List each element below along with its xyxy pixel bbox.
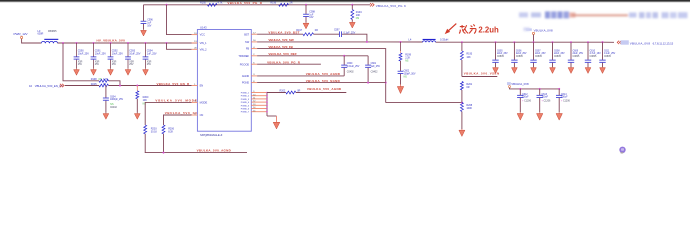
junction c598 [305, 4, 307, 6]
junction C613 [539, 88, 541, 90]
svg-text:8.2K: 8.2K [168, 130, 173, 133]
capacitor C610 [587, 42, 589, 60]
wire input [22, 39, 42, 43]
capacitor C598 [305, 5, 307, 14]
svg-text:VBULKA_5V0_MODE: VBULKA_5V0_MODE [155, 99, 197, 103]
svg-text:PGND_2: PGND_2 [241, 96, 250, 98]
wire tier2 rail [510, 88, 560, 89]
ground C605 [495, 66, 497, 69]
svg-text:NS: NS [405, 61, 409, 63]
junction fb pgnd [385, 82, 387, 84]
wire pgnd to gnd [267, 115, 277, 117]
svg-text:VCC: VCC [200, 33, 205, 37]
capacitor C614 [558, 89, 560, 95]
ground C590 [76, 68, 78, 71]
ground C611 [602, 66, 604, 69]
svg-text:R196: R196 [270, 2, 276, 5]
svg-text:0R: 0R [315, 29, 318, 32]
svg-text:0.01uF_25V: 0.01uF_25V [347, 65, 360, 68]
capacitor C608 [552, 42, 554, 60]
svg-text:2.2K: 2.2K [405, 56, 410, 59]
junction C605 [495, 41, 497, 43]
svg-text:10K: 10K [466, 56, 471, 59]
svg-text:C0805: C0805 [604, 55, 611, 58]
junction input cap C594 [145, 42, 147, 44]
capacitor C600 [343, 56, 345, 65]
junction en row2 b [136, 85, 138, 87]
capacitor C594 [145, 43, 147, 57]
wire fb [257, 49, 386, 103]
wire agnd row [257, 75, 344, 77]
wire bst a [257, 33, 303, 35]
ground R200 [136, 112, 138, 115]
svg-text:PGND_4: PGND_4 [241, 102, 250, 104]
wire input rail HV_VBULKA_5V0 [58, 42, 198, 44]
ground C608 [552, 66, 554, 69]
svg-text:VBULKA_0V8: VBULKA_0V8 [630, 41, 651, 45]
ground C593 [127, 68, 129, 71]
junction C610 [587, 41, 589, 43]
junction input cap C592 [110, 42, 112, 44]
svg-text:SW: SW [245, 40, 250, 44]
pin PGND_5 [251, 104, 267, 106]
svg-text:C1206: C1206 [544, 99, 551, 102]
junction pgnd row [367, 82, 369, 84]
svg-text:C1206: C1206 [524, 99, 531, 102]
wire pgnd row [257, 82, 386, 84]
wire vcc branch [167, 5, 192, 35]
svg-text:0R: 0R [466, 86, 469, 89]
ground C598 [305, 22, 307, 25]
wire bst b [314, 33, 340, 35]
resistor R194 [351, 5, 353, 10]
junction C614 [558, 88, 560, 90]
svg-text:PGND: PGND [242, 81, 249, 85]
svg-text:C0805: C0805 [554, 55, 561, 58]
svg-text:100uF: 100uF [561, 96, 568, 99]
capacitor C607 [533, 42, 535, 60]
svg-text:TRK/REF: TRK/REF [238, 54, 249, 58]
pin PGND_1 [251, 92, 267, 94]
capacitor C613 [539, 89, 541, 95]
junction C606 [513, 41, 515, 43]
svg-text:25V: 25V [147, 63, 152, 66]
off-page VBULKA_0V8 [617, 41, 621, 44]
svg-text:C0805: C0805 [497, 55, 504, 58]
junction input cap C593 [127, 42, 129, 44]
pin PGND_6 [251, 108, 267, 110]
svg-text:10uF_25V: 10uF_25V [95, 52, 106, 55]
wire en row2 left [65, 85, 99, 87]
svg-text:C0402: C0402 [371, 70, 378, 73]
junction vin branch [62, 42, 64, 44]
ground C612 [519, 112, 521, 113]
resistor R202 [267, 92, 286, 94]
resistor R197 [303, 33, 314, 36]
wire pgood [257, 63, 321, 65]
junction C611 [602, 41, 604, 43]
capacitor C597 [338, 31, 340, 37]
svg-text:MODE: MODE [200, 101, 208, 105]
capacitor C602 [398, 70, 404, 72]
pin VCC [192, 34, 198, 36]
svg-text:10uF_25V: 10uF_25V [129, 52, 140, 55]
junction pgnd 3 [266, 98, 268, 100]
svg-text:25V: 25V [78, 63, 83, 66]
IC U143 body [197, 30, 251, 132]
resistor R201 [460, 82, 463, 91]
svg-text:0.33uH: 0.33uH [440, 38, 448, 42]
ground R194 [351, 21, 353, 24]
junction C607 [533, 41, 535, 43]
junction sw bst [366, 41, 368, 43]
svg-text:C1206: C1206 [563, 99, 570, 102]
junction C612 [519, 88, 521, 90]
junction pgnd 6 [266, 108, 268, 110]
svg-text:0R: 0R [297, 89, 300, 92]
capacitor C604 [105, 86, 107, 98]
power flag VBULKA_0V8 mid [526, 28, 532, 30]
pin FB [251, 48, 257, 50]
power flag VBULKA_0V8 [507, 82, 511, 85]
svg-text:2R: 2R [289, 2, 292, 5]
ground C606 [513, 66, 515, 69]
svg-text:VBULKA_5V0_AGND: VBULKA_5V0_AGND [197, 149, 232, 153]
junction pgnd 4 [266, 101, 268, 103]
svg-text:C0805: C0805 [516, 55, 523, 58]
resistor R199 [400, 42, 402, 51]
junction fb divider [461, 102, 463, 104]
svg-text:VBULKA_5V0_EN_PS: VBULKA_5V0_EN_PS [35, 84, 63, 88]
svg-text:C0805: C0805 [573, 55, 580, 58]
pin BST [251, 33, 257, 35]
resistor R203 [144, 125, 147, 134]
ground C604 [105, 112, 107, 115]
resistor R206 [162, 125, 165, 134]
pin TRK/REF [251, 55, 257, 57]
svg-text:HV_VBULKA_5V0: HV_VBULKA_5V0 [97, 39, 126, 43]
svg-text:NS: NS [356, 18, 360, 20]
svg-text:VBULKA_0V8: VBULKA_0V8 [511, 82, 529, 86]
wire ref to c601 [367, 56, 369, 65]
ground C614 [558, 112, 560, 113]
top window border [0, 0, 690, 1]
svg-text:VIN_2: VIN_2 [200, 47, 208, 51]
svg-text:100uF: 100uF [542, 96, 549, 99]
junction vin2 branch [166, 42, 168, 44]
svg-text:C597: C597 [334, 28, 340, 31]
svg-text:R205: R205 [91, 83, 97, 86]
svg-text:600R: 600R [38, 33, 44, 36]
svg-text:1000pF_25V: 1000pF_25V [110, 98, 124, 101]
avatar icon [619, 147, 625, 153]
wire en row2 [109, 85, 192, 87]
svg-text:6,7,8,11,12,13,15: 6,7,8,11,12,13,15 [653, 41, 674, 45]
pin PGND_3 [251, 98, 267, 100]
pin SW [251, 41, 257, 43]
pin PGOOD [251, 63, 257, 65]
capacitor C596 [143, 5, 145, 21]
annotation arrow [448, 24, 457, 32]
svg-text:VIN_1: VIN_1 [200, 41, 208, 45]
svg-text:PGND_5: PGND_5 [241, 105, 250, 107]
wire pgnd bus [266, 93, 268, 117]
svg-text:PGND_3: PGND_3 [241, 99, 250, 101]
svg-text:C0402: C0402 [110, 106, 117, 109]
capacitor C612 [519, 89, 521, 95]
svg-text:25V: 25V [95, 63, 100, 66]
ground C602 [400, 85, 402, 87]
wire agnd rail [145, 152, 247, 154]
capacitor C611 [602, 42, 604, 60]
junction out end [602, 41, 604, 43]
resistor R193 [461, 42, 463, 51]
ground C610 [587, 66, 589, 69]
wire output stub [603, 41, 615, 43]
ground C594 [145, 68, 147, 71]
svg-text:U143: U143 [200, 25, 207, 29]
wire bst c [342, 34, 367, 42]
svg-text:16V: 16V [309, 16, 314, 19]
capacitor C592 [110, 43, 112, 57]
svg-text:VBULKA_5V0_PG: VBULKA_5V0_PG [376, 4, 403, 8]
svg-text:PWR_12V: PWR_12V [14, 32, 29, 36]
svg-text:4.7K: 4.7K [218, 2, 223, 5]
wire cn row [164, 115, 192, 125]
pin PGND [251, 82, 257, 84]
ground C607 [533, 66, 535, 69]
svg-text:C0402: C0402 [347, 70, 354, 73]
svg-text:10: 10 [29, 84, 33, 88]
ground C591 [93, 68, 95, 71]
svg-text:PGND_6: PGND_6 [241, 109, 250, 111]
svg-text:100pF_50V: 100pF_50V [404, 72, 416, 75]
svg-text:1uF_25V: 1uF_25V [147, 52, 157, 55]
svg-text:R197: R197 [296, 29, 302, 32]
wire sw [257, 41, 423, 43]
annotation text 改为2.2uh [459, 24, 476, 33]
junction r194 [351, 4, 353, 6]
ground C609 [570, 66, 572, 69]
svg-text:VBULKA_5V0_PG_R: VBULKA_5V0_PG_R [227, 1, 262, 5]
resistor R196 [279, 3, 289, 6]
pin EN [192, 85, 198, 87]
svg-text:25V: 25V [129, 63, 134, 66]
svg-text:NS: NS [143, 104, 147, 106]
junction pgnd 5 [266, 105, 268, 107]
wire vsen stub [462, 76, 497, 78]
capacitor C606 [513, 42, 515, 60]
svg-text:100uF: 100uF [522, 96, 529, 99]
svg-text:2.2uh: 2.2uh [478, 26, 499, 35]
wire vin2 branch [167, 43, 192, 49]
svg-text:NS: NS [404, 77, 408, 79]
pin PGND_4 [251, 101, 267, 103]
svg-text:25V: 25V [112, 63, 117, 66]
svg-text:10K: 10K [356, 14, 361, 17]
pin VIN_1 [192, 42, 198, 44]
junction sw snub [400, 41, 402, 43]
wire vin to EN row1 [63, 43, 99, 81]
junction en row2 a [119, 85, 121, 87]
wire fb to divider [386, 102, 462, 104]
capacitor C601 [365, 64, 371, 66]
capacitor C590 [76, 43, 78, 57]
pin VIN_2 [192, 48, 198, 50]
blurred text row [519, 11, 688, 31]
ground C592 [110, 68, 112, 71]
ground divider [461, 129, 463, 130]
ground pgnd [276, 116, 278, 122]
svg-text:10K: 10K [143, 99, 148, 102]
junction C608 [552, 41, 554, 43]
junction C609 [570, 41, 572, 43]
svg-text:10uF_25V: 10uF_25V [112, 52, 123, 55]
wire ref [257, 55, 368, 57]
off-page VBULKA_5V0_PG [370, 3, 374, 6]
junction ref [343, 55, 345, 57]
svg-text:30.1K: 30.1K [151, 130, 158, 133]
resistor R195 [208, 3, 218, 6]
svg-text:VBULKA_5V0_EN_R: VBULKA_5V0_EN_R [157, 82, 191, 86]
junction input cap C590 [76, 42, 78, 44]
svg-text:BST: BST [244, 32, 249, 36]
svg-text:VBULKA_0V8: VBULKA_0V8 [534, 28, 553, 32]
ground C596 [143, 29, 145, 32]
capacitor C591 [93, 43, 95, 57]
junction vcc [166, 4, 168, 6]
svg-text:FB: FB [246, 47, 250, 51]
junction pgnd 2 [266, 95, 268, 97]
wire output rail [436, 41, 603, 43]
junction input cap C591 [93, 42, 95, 44]
svg-text:PGOOD: PGOOD [240, 62, 250, 66]
capacitor C593 [127, 43, 129, 57]
svg-text:1uF_25V: 1uF_25V [371, 65, 381, 68]
pin CN [192, 114, 198, 116]
svg-text:16V: 16V [147, 24, 152, 27]
capacitor C605 [495, 42, 497, 60]
svg-text:C0805: C0805 [590, 55, 597, 58]
junction pgnd 1 [266, 92, 268, 94]
pin AGND [251, 75, 257, 77]
svg-text:VBULKA_5V0_AGND: VBULKA_5V0_AGND [307, 87, 342, 91]
wire vcc top rail [144, 4, 371, 6]
svg-text:100K: 100K [466, 107, 472, 110]
svg-text:R195: R195 [200, 2, 206, 5]
svg-text:CN: CN [200, 113, 204, 117]
svg-text:EN: EN [200, 84, 204, 88]
svg-text:PGND_1: PGND_1 [241, 93, 250, 95]
ground C613 [539, 112, 541, 113]
pin MODE [192, 101, 198, 103]
svg-text:R202: R202 [280, 89, 286, 92]
resistor R208 [460, 103, 463, 112]
junction pgnd 7 [266, 111, 268, 113]
pin PGND_2 [251, 95, 267, 97]
pin PGND_7 [251, 111, 267, 113]
resistor R200 [136, 86, 138, 91]
junction divider [461, 41, 463, 43]
wire mode row [145, 102, 191, 125]
svg-text:MPQ8633AGLE-Z: MPQ8633AGLE-Z [200, 133, 222, 137]
svg-text:PGND_7: PGND_7 [241, 112, 250, 114]
wire row1 to corner [109, 81, 121, 86]
svg-text:VBULKA_5V0_VSEN: VBULKA_5V0_VSEN [464, 72, 500, 76]
svg-text:AGND: AGND [242, 74, 249, 78]
svg-text:R198: R198 [91, 78, 97, 81]
junction agnd [163, 152, 165, 154]
svg-text:FB0805: FB0805 [48, 30, 57, 33]
capacitor C609 [570, 42, 572, 60]
svg-text:C0805: C0805 [535, 55, 542, 58]
svg-text:10uF_25V: 10uF_25V [78, 52, 89, 55]
